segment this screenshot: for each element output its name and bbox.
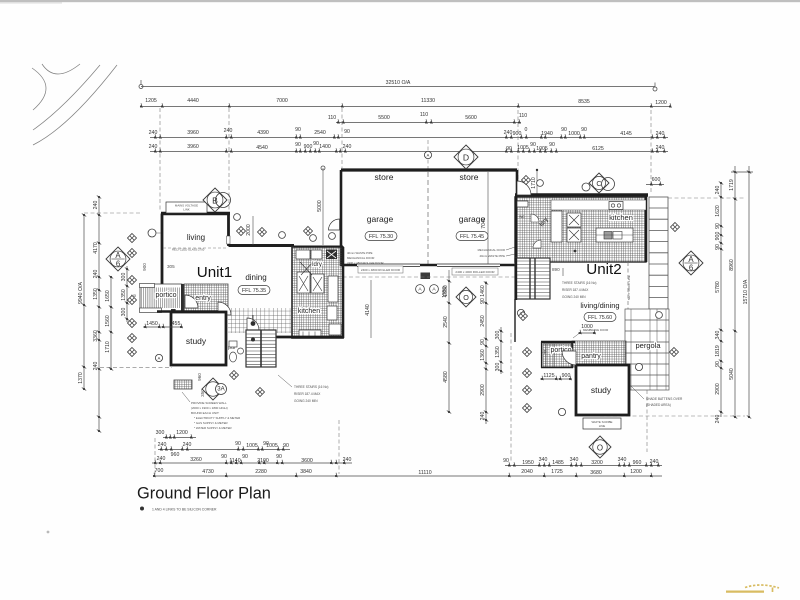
svg-text:PROVIDE SCREEN WALL: PROVIDE SCREEN WALL <box>191 401 227 405</box>
mains voltage box <box>166 202 207 213</box>
svg-text:2280: 2280 <box>255 469 267 475</box>
dashed link unit2 NE to right cols <box>668 197 745 199</box>
svg-text:1725: 1725 <box>551 469 563 475</box>
dim row 110/5500/110/5600/110 <box>336 122 521 124</box>
svg-text:1005: 1005 <box>536 146 548 152</box>
svg-text:90: 90 <box>506 146 512 152</box>
unit1 staircase <box>246 330 276 367</box>
dim row 240/3960/4540/90/900/90/1400/240 + 90/1005/90/1005/90/6125/240 <box>150 151 668 153</box>
ldry bench + appliances (white boxes) <box>296 250 341 338</box>
svg-text:240: 240 <box>157 456 166 462</box>
svg-text:B: B <box>212 196 218 206</box>
svg-text:700: 700 <box>155 468 164 474</box>
svg-text:90: 90 <box>715 244 721 250</box>
symbol big diamond O/A unit2 bottom <box>589 436 611 458</box>
unit1 front door jamb <box>181 284 185 311</box>
svg-text:kitchen: kitchen <box>298 308 320 315</box>
svg-text:1710: 1710 <box>531 177 537 189</box>
svg-text:240: 240 <box>343 144 352 150</box>
svg-text:3200: 3200 <box>591 460 603 466</box>
svg-text:1200: 1200 <box>630 469 642 475</box>
unit2 west wall <box>515 196 517 258</box>
svg-text:340: 340 <box>539 457 548 463</box>
unit2 east wall <box>645 196 648 262</box>
svg-text:1360: 1360 <box>480 349 486 361</box>
svg-text:240: 240 <box>480 412 486 421</box>
svg-text:960: 960 <box>633 460 642 466</box>
svg-text:90: 90 <box>480 298 486 304</box>
svg-text:Unit2: Unit2 <box>586 261 621 278</box>
symbol big diamond O/A mid bottom <box>456 287 476 307</box>
svg-text:240: 240 <box>158 442 167 448</box>
svg-text:900: 900 <box>142 263 147 271</box>
svg-text:wc: wc <box>519 214 525 219</box>
unit1 door arcs <box>185 295 259 330</box>
dim col mid 1460/90/2450/90/1360/2900/240 <box>485 281 487 424</box>
svg-text:90: 90 <box>313 141 319 147</box>
svg-text:ldry: ldry <box>312 262 322 268</box>
svg-text:2450: 2450 <box>480 315 486 327</box>
svg-text:4390: 4390 <box>257 130 269 136</box>
svg-text:LINK: LINK <box>183 208 189 212</box>
unit2 staircase <box>515 258 550 299</box>
svg-text:3A: 3A <box>217 387 225 393</box>
store2 side dim 1710 <box>536 170 538 195</box>
svg-text:4170: 4170 <box>93 242 99 254</box>
svg-text:1819: 1819 <box>715 345 721 357</box>
garage internal vertical dim 7040 <box>487 172 489 264</box>
svg-text:90: 90 <box>242 454 248 460</box>
svg-text:(SHADED AREA): (SHADED AREA) <box>646 403 671 407</box>
garage block outer walls <box>341 170 517 266</box>
svg-text:305: 305 <box>167 264 175 269</box>
svg-text:1005: 1005 <box>246 443 258 449</box>
svg-text:1000: 1000 <box>568 131 580 137</box>
svg-text:study: study <box>591 385 612 395</box>
dashed projection bottom <box>84 213 745 475</box>
site contour arcs top-left <box>32 64 117 145</box>
svg-text:240: 240 <box>149 144 158 150</box>
svg-text:6: 6 <box>116 259 120 268</box>
dim col right 15710 O/A <box>748 172 750 417</box>
living/dining dashed divider + note <box>163 247 228 249</box>
unit2 study room <box>576 365 629 415</box>
svg-text:3840: 3840 <box>300 469 312 475</box>
unit1 living room walls <box>161 214 230 287</box>
svg-text:5500: 5500 <box>378 115 390 121</box>
svg-text:store: store <box>460 172 479 182</box>
unit1 portico steps <box>140 284 182 312</box>
svg-text:5040: 5040 <box>729 368 735 380</box>
svg-text:1460: 1460 <box>480 285 486 297</box>
dim row 240/3960/240/4390/90/2540/90 + 240/900/1940/1000/4145/240 <box>150 137 668 139</box>
unit2 1000 dim <box>578 332 596 334</box>
svg-text:90: 90 <box>561 127 567 133</box>
svg-text:RECYCLED GLASS 2700: RECYCLED GLASS 2700 <box>172 248 205 252</box>
roller door labels <box>358 266 403 273</box>
svg-text:2400 x 4800 ROLLER DOOR: 2400 x 4800 ROLLER DOOR <box>347 261 384 265</box>
svg-text:THREE STAIRS (16 No): THREE STAIRS (16 No) <box>294 385 328 389</box>
svg-text:90: 90 <box>715 223 721 229</box>
svg-text:1940: 1940 <box>541 131 553 137</box>
unit1 east wall <box>342 247 345 338</box>
svg-text:1200: 1200 <box>176 430 188 436</box>
garage internal vertical dim 5000 <box>322 168 324 245</box>
garage to unit1 door arc <box>329 219 340 230</box>
1550 dim below garage <box>448 270 450 281</box>
svg-text:1450: 1450 <box>146 321 158 327</box>
svg-text:90: 90 <box>295 127 301 133</box>
svg-text:960: 960 <box>171 452 180 458</box>
svg-text:RISER 187.4 MAX: RISER 187.4 MAX <box>562 288 589 292</box>
svg-text:GOING 240 MIN: GOING 240 MIN <box>294 399 318 403</box>
svg-text:THREE STAIRS (16 No): THREE STAIRS (16 No) <box>562 281 596 285</box>
svg-text:4540: 4540 <box>256 145 268 151</box>
svg-text:300: 300 <box>495 363 501 372</box>
dim col mid 1550/2540/4580 <box>448 281 450 412</box>
svg-text:MECHANICAL DOOR: MECHANICAL DOOR <box>478 248 505 252</box>
svg-text:5600: 5600 <box>465 115 477 121</box>
unit2 pergola battens area <box>625 309 669 390</box>
svg-text:3260: 3260 <box>190 457 202 463</box>
unit2 north wall <box>515 193 648 196</box>
unit2 roof dashed line <box>627 262 629 341</box>
svg-text:1485: 1485 <box>552 460 564 466</box>
svg-text:BOUND EACH UNIT:: BOUND EACH UNIT: <box>191 411 220 415</box>
svg-text:2100: 2100 <box>257 458 269 464</box>
svg-text:1719: 1719 <box>729 179 735 191</box>
svg-text:A: A <box>158 356 161 361</box>
unit2 pergola colonnade (east ladder strip) <box>649 197 668 309</box>
svg-text:90: 90 <box>276 454 282 460</box>
svg-text:9940 O/A: 9940 O/A <box>78 282 84 304</box>
svg-text:5780: 5780 <box>715 281 721 293</box>
svg-text:FFL 75.60: FFL 75.60 <box>588 315 612 321</box>
svg-text:2400 x 4000 ROLLER DOOR: 2400 x 4000 ROLLER DOOR <box>455 270 495 274</box>
svg-text:960: 960 <box>197 373 202 381</box>
unit1 2000 dim <box>252 216 254 245</box>
svg-text:7040: 7040 <box>481 217 487 229</box>
dim row 32510 O/A <box>141 86 655 88</box>
svg-text:90: 90 <box>581 127 587 133</box>
svg-text:1550: 1550 <box>442 286 448 298</box>
svg-text:1350: 1350 <box>93 288 99 300</box>
symbol diamond above garage <box>454 145 478 169</box>
svg-text:A: A <box>427 153 430 158</box>
svg-text:90: 90 <box>221 454 227 460</box>
svg-text:MECHANICAL DOOR: MECHANICAL DOOR <box>347 256 374 260</box>
svg-text:* GAS SUPPLY & METER: * GAS SUPPLY & METER <box>194 421 228 425</box>
svg-text:1140: 1140 <box>229 458 240 464</box>
white scribe line box <box>583 418 621 429</box>
symbol diamond A/6 left <box>106 247 130 271</box>
symbol diamond+circle below unit1 study <box>202 378 224 400</box>
left column small service diamonds <box>128 234 137 243</box>
svg-text:890: 890 <box>552 267 560 272</box>
svg-text:* ELECTRICITY SUPPLY & METER: * ELECTRICITY SUPPLY & METER <box>194 416 240 420</box>
svg-text:* WATER SUPPLY & METER: * WATER SUPPLY & METER <box>194 426 232 430</box>
svg-text:2540: 2540 <box>443 316 449 328</box>
unit2 kitchen tiled block <box>515 197 646 262</box>
svg-text:living/dining: living/dining <box>580 301 619 310</box>
svg-text:900: 900 <box>562 373 571 379</box>
svg-text:90: 90 <box>283 443 289 449</box>
svg-text:1710: 1710 <box>105 341 111 353</box>
svg-text:3680: 3680 <box>590 470 602 476</box>
svg-text:0: 0 <box>525 127 528 133</box>
wall symbol circle left of living <box>148 229 156 237</box>
unit2 portico stairs <box>546 344 554 367</box>
svg-text:11110: 11110 <box>418 470 431 476</box>
svg-text:90: 90 <box>295 142 301 148</box>
living window jamb <box>227 236 230 244</box>
unit2 NW door arc <box>517 181 531 195</box>
svg-text:entry: entry <box>195 295 211 302</box>
svg-text:store: store <box>375 172 394 182</box>
svg-text:O: O <box>463 293 469 302</box>
svg-text:900: 900 <box>304 144 313 150</box>
svg-text:4580: 4580 <box>443 371 449 383</box>
svg-text:Ground Floor Plan: Ground Floor Plan <box>137 485 271 503</box>
unit1 north wall dining/kitchen <box>229 244 295 247</box>
svg-text:LINE: LINE <box>599 424 605 428</box>
svg-text:90: 90 <box>235 441 241 447</box>
unit2 portico + entry tiles <box>543 344 573 367</box>
svg-text:pergola: pergola <box>635 341 661 350</box>
scan edge shading top <box>0 0 800 2</box>
svg-text:3960: 3960 <box>187 130 199 136</box>
svg-text:4140: 4140 <box>365 304 371 316</box>
svg-text:300: 300 <box>121 308 127 317</box>
svg-text:1125: 1125 <box>543 373 554 379</box>
svg-text:32510 O/A: 32510 O/A <box>386 80 411 86</box>
dim row right 90/1950/340/1485/340/3200/340/960/240 <box>505 465 662 467</box>
dim 600 above unit2 NE corner <box>646 184 664 186</box>
svg-text:2900: 2900 <box>480 384 486 396</box>
symbol circles unit2 <box>635 363 642 370</box>
gold builder logo bottom-right <box>726 585 779 592</box>
svg-text:600: 600 <box>652 177 661 183</box>
svg-text:3360: 3360 <box>93 330 99 342</box>
svg-text:6: 6 <box>689 263 693 272</box>
svg-text:110: 110 <box>519 113 527 119</box>
unit1 kitchen north wall <box>294 246 343 248</box>
symbol small diamonds unit1 interior <box>237 227 246 236</box>
svg-text:90: 90 <box>530 142 536 148</box>
dashed link study bottom to left cols <box>100 366 172 368</box>
svg-text:1400: 1400 <box>319 144 331 150</box>
svg-text:240: 240 <box>93 362 99 371</box>
svg-text:90: 90 <box>503 458 509 464</box>
symbol diamond C top unit2 <box>589 173 609 193</box>
title note <box>140 507 144 511</box>
svg-text:2540: 2540 <box>314 130 326 136</box>
svg-text:FFL 75.35: FFL 75.35 <box>242 288 266 294</box>
svg-text:5000: 5000 <box>317 200 323 212</box>
screen wall hatched stub + notes <box>174 380 192 389</box>
svg-text:1005: 1005 <box>266 443 278 449</box>
svg-text:GOING 240 MIN: GOING 240 MIN <box>562 295 586 299</box>
svg-text:90: 90 <box>715 361 721 367</box>
svg-text:garage: garage <box>367 214 394 224</box>
svg-text:240: 240 <box>656 145 665 151</box>
garage centre dashed party line <box>427 172 429 265</box>
svg-text:7000: 7000 <box>276 98 288 104</box>
svg-text:4440: 4440 <box>187 98 199 104</box>
svg-text:110: 110 <box>420 112 428 118</box>
dashed projection lines from top dims <box>160 108 651 214</box>
svg-text:dining: dining <box>245 273 266 282</box>
dim row 300/1200 (bottom small) <box>163 437 196 439</box>
symbol diamond B top unit1 <box>203 188 227 212</box>
svg-text:1005: 1005 <box>517 145 529 151</box>
svg-text:FFL 75.45: FFL 75.45 <box>460 234 484 240</box>
unit2 kitchen fixtures <box>517 200 646 242</box>
svg-text:4730: 4730 <box>202 469 214 475</box>
svg-text:O: O <box>597 443 603 452</box>
svg-text:240: 240 <box>504 130 513 136</box>
svg-text:1000: 1000 <box>581 324 593 330</box>
symbol circles unit1 interior <box>234 214 241 221</box>
svg-text:RISER 187.4 MAX: RISER 187.4 MAX <box>294 392 321 396</box>
roller door centre pier <box>421 273 431 280</box>
svg-text:340: 340 <box>570 457 579 463</box>
dim col 9940 O/A (left outer) <box>83 215 85 389</box>
svg-text:900: 900 <box>513 131 522 137</box>
svg-text:240: 240 <box>343 457 352 463</box>
svg-text:11330: 11330 <box>421 98 435 104</box>
svg-text:1200: 1200 <box>655 100 667 106</box>
svg-text:D: D <box>463 153 469 163</box>
symbol small diamonds unit2 column <box>523 348 532 357</box>
svg-text:(2000 x 1900 x 1800 HIGH): (2000 x 1900 x 1800 HIGH) <box>191 406 228 410</box>
svg-text:1620: 1620 <box>715 205 721 217</box>
svg-text:C: C <box>596 179 601 188</box>
driveway dashed edge <box>336 276 523 278</box>
svg-text:living: living <box>187 233 205 242</box>
unit2 bath door arcs <box>531 214 541 248</box>
dim col left 1650/1560/1710 <box>110 277 112 369</box>
svg-text:240: 240 <box>93 270 99 279</box>
svg-text:15710 O/A: 15710 O/A <box>743 279 749 304</box>
unit2 1125/900 dims <box>540 378 572 380</box>
unit1 kitchen/ldry tiled block <box>292 247 343 338</box>
svg-text:40mm WASTE PIPE: 40mm WASTE PIPE <box>347 251 373 255</box>
svg-text:300: 300 <box>156 430 165 436</box>
unit1 study room <box>171 312 226 365</box>
svg-text:kitchen: kitchen <box>609 213 633 222</box>
svg-text:Unit1: Unit1 <box>197 264 232 281</box>
svg-text:2400 x 4800 ROLLER DOOR: 2400 x 4800 ROLLER DOOR <box>361 268 401 272</box>
dim row 1205/4440/7000/11330/8535/1200 <box>141 106 670 108</box>
svg-text:300: 300 <box>121 273 127 282</box>
scan speck <box>47 531 50 534</box>
unit1 entry tiles <box>184 284 228 311</box>
svg-text:2900: 2900 <box>715 383 721 395</box>
garage bottom wall stubs + roller doors <box>341 264 518 267</box>
svg-text:240: 240 <box>715 186 721 195</box>
svg-text:1950: 1950 <box>522 460 534 466</box>
svg-text:SHADE BATTENS OVER: SHADE BATTENS OVER <box>646 397 683 401</box>
svg-text:study: study <box>186 336 207 346</box>
svg-text:110: 110 <box>328 115 336 121</box>
dim row 240/960/240 + 90/1005/90/1005/90 <box>158 449 290 451</box>
svg-text:90: 90 <box>344 129 350 135</box>
unit1 4140 dim right of kitchen <box>370 280 372 338</box>
unit1 hallway tiles <box>228 308 292 333</box>
svg-text:1650: 1650 <box>105 290 111 302</box>
symbol small diamonds unit2 interior <box>574 250 577 253</box>
svg-text:8535: 8535 <box>578 99 590 105</box>
svg-text:240: 240 <box>93 201 99 210</box>
svg-text:900: 900 <box>715 232 721 241</box>
unit1 bottom wall <box>276 336 344 339</box>
svg-text:240: 240 <box>224 128 233 134</box>
unit2 study door arc <box>562 351 576 365</box>
unit2 portico south edge wall <box>541 367 573 369</box>
symbol circles below garage <box>416 285 425 294</box>
svg-text:90: 90 <box>480 339 486 345</box>
unit2 portico north wall <box>541 341 575 343</box>
dim row 240/3260/1140/2100/3600/240 <box>152 462 352 464</box>
svg-text:3960: 3960 <box>187 144 199 150</box>
dim col left 240/4170/240/1350/3360/240 <box>98 197 100 431</box>
svg-text:455: 455 <box>172 321 181 327</box>
svg-text:8960: 8960 <box>729 259 735 271</box>
dim col left 300/1350/300 <box>126 266 128 322</box>
svg-text:4145: 4145 <box>620 131 632 137</box>
svg-text:1 AND 4 LINKS TO BE SILICON CO: 1 AND 4 LINKS TO BE SILICON CORNER <box>152 508 217 512</box>
svg-text:240: 240 <box>650 459 659 465</box>
svg-text:240: 240 <box>656 131 665 137</box>
svg-text:340: 340 <box>715 331 721 340</box>
svg-text:1350: 1350 <box>495 346 501 358</box>
svg-text:pantry: pantry <box>581 353 601 360</box>
svg-text:NETT ROOF LINE: NETT ROOF LINE <box>627 275 631 300</box>
dim col right 240/1620/900/5780/340/1819/90/2900/240 <box>720 183 722 417</box>
svg-text:90: 90 <box>549 142 555 148</box>
svg-text:340: 340 <box>618 457 627 463</box>
svg-text:240: 240 <box>183 442 192 448</box>
dim row 700/4730/2280/3840/11110/2040/1725/3680/1200 (bottom O/A) <box>154 475 662 477</box>
dim col right 1719/8960/5040 <box>734 172 736 417</box>
svg-text:6125: 6125 <box>592 146 604 152</box>
svg-text:300: 300 <box>495 331 501 340</box>
svg-text:240: 240 <box>149 130 158 136</box>
svg-text:1370: 1370 <box>78 372 84 384</box>
svg-text:1205: 1205 <box>145 98 157 104</box>
symbol circle AL near top garage <box>424 151 431 158</box>
dim col mid 300/1350/300 <box>500 327 502 374</box>
unit1 entry south wall <box>157 310 230 313</box>
svg-text:3600: 3600 <box>301 458 313 464</box>
svg-text:40mm WASTE PIPE: 40mm WASTE PIPE <box>479 254 505 258</box>
svg-text:portico: portico <box>155 292 176 299</box>
svg-text:2040: 2040 <box>521 469 533 475</box>
unit2 west wall lower segment <box>514 299 516 342</box>
symbol circle near unit2 top <box>582 183 590 191</box>
svg-text:1560: 1560 <box>105 315 111 327</box>
symbol diamond A/6 right <box>679 251 703 275</box>
svg-text:2000: 2000 <box>246 224 252 236</box>
svg-text:FFL 75.30: FFL 75.30 <box>369 234 393 240</box>
svg-text:1350: 1350 <box>121 289 127 301</box>
